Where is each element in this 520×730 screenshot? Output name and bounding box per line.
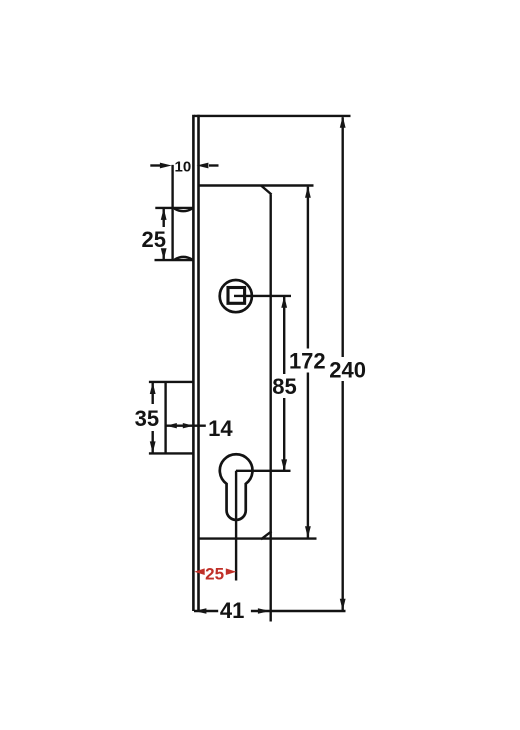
svg-text:41: 41 [220,598,244,623]
svg-text:35: 35 [135,406,159,431]
svg-text:10: 10 [175,158,192,175]
svg-text:14: 14 [208,416,233,441]
svg-text:25: 25 [142,227,166,252]
svg-text:172: 172 [289,349,326,374]
svg-text:25: 25 [205,564,224,583]
svg-text:240: 240 [329,358,366,383]
svg-text:85: 85 [272,374,296,399]
